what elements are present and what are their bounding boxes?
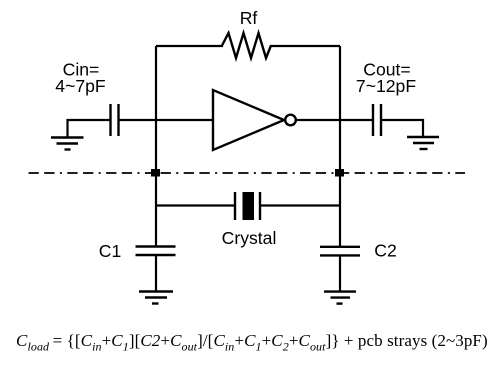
svg-text:7~12pF: 7~12pF — [356, 76, 416, 96]
svg-text:Rf: Rf — [240, 8, 258, 28]
ground (right of Cout) — [407, 137, 439, 149]
wire: Cin to ground — [68, 120, 111, 138]
wire: right vertical bus (node XOUT) — [339, 46, 341, 247]
wire: crystal right lead — [260, 204, 340, 206]
load capacitance formula — [16, 332, 488, 349]
svg-text:C2: C2 — [374, 241, 397, 261]
node (left bus junction square) — [151, 169, 160, 177]
ground (left of Cin) — [51, 138, 84, 150]
ground (below C1) — [139, 292, 173, 304]
svg-text:Crystal: Crystal — [222, 228, 277, 248]
crystal Y1 — [235, 192, 260, 220]
wire: crystal left lead — [156, 204, 235, 206]
svg-text:4~7pF: 4~7pF — [55, 76, 106, 96]
capacitor Cin (plates) — [111, 104, 119, 136]
wire: C2 to ground — [339, 255, 341, 291]
wire: left vertical bus (node XIN) — [155, 46, 157, 247]
wire: top feedback loop, right segment — [270, 45, 340, 47]
wire: inverter output — [296, 119, 373, 121]
node (right bus junction square) — [335, 169, 344, 177]
wire: C1 to ground — [155, 255, 157, 292]
wire: top feedback loop, left segment — [156, 45, 223, 47]
capacitor C1 (plates) — [136, 247, 176, 256]
wire: Cout to ground — [381, 120, 423, 137]
wire: inverter input — [119, 119, 214, 121]
capacitor C2 (plates) — [320, 247, 360, 256]
inverter output bubble — [285, 115, 296, 126]
capacitor Cout (plates) — [373, 104, 381, 136]
resistor Rf (zigzag) — [222, 33, 271, 58]
op-amp U1 (inverter triangle) — [213, 90, 296, 150]
svg-text:C1: C1 — [99, 241, 122, 261]
ground (below C2) — [324, 292, 356, 304]
chip boundary dash-dot line — [29, 172, 466, 174]
